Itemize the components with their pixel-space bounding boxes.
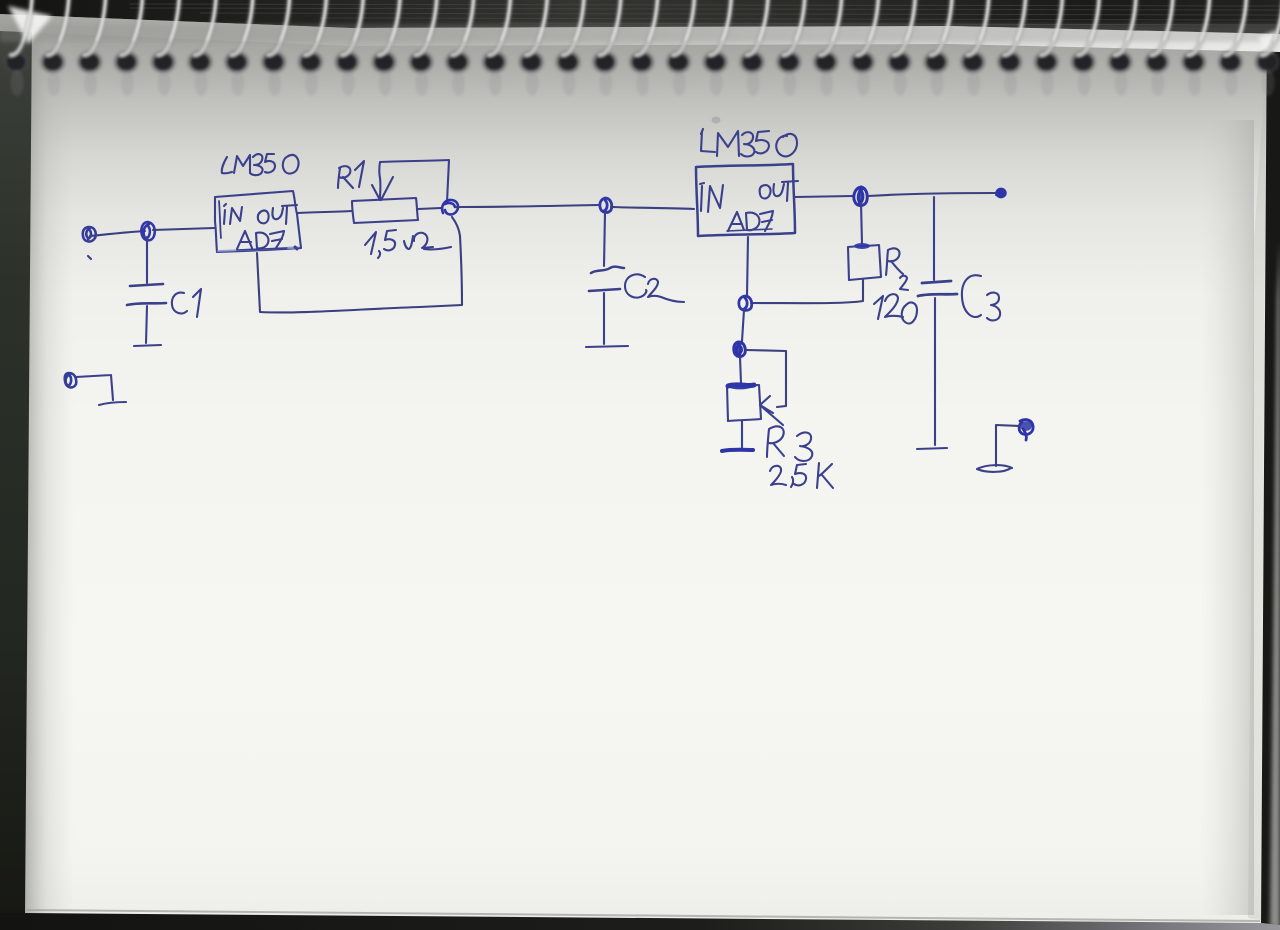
wire node J1 to U1 IN: [153, 228, 214, 230]
regulator U1 box: [215, 191, 301, 252]
label R2: [886, 248, 903, 275]
node J2 (output of R1): [442, 200, 458, 215]
wire node J3 to U2 IN: [611, 207, 694, 209]
regulator U1 pin label OUT: [258, 211, 269, 224]
potentiometer R3 wiper arrow: [760, 396, 783, 425]
node J1 (input junction): [141, 222, 154, 240]
regulator U2 box: [696, 164, 795, 236]
capacitor C3 lead bottom: [934, 298, 936, 445]
capacitor C2 lead bottom: [603, 293, 605, 344]
R3 foot: [722, 450, 753, 451]
label C3: [962, 275, 981, 317]
capacitor C1 bottom plate: [127, 303, 166, 305]
potentiometer R1 wiper wire loop: [379, 160, 449, 202]
wire output terminal L-shape: [996, 425, 1020, 466]
wire U2 OUT to node J4: [795, 196, 853, 197]
wire R3 to foot: [741, 421, 743, 448]
capacitor C2 foot: [586, 346, 628, 347]
potentiometer R3 body: [727, 385, 761, 421]
wire node J6 to R3: [740, 357, 741, 383]
stray ink dot: [88, 256, 91, 259]
output terminal foot: [977, 465, 1012, 472]
regulator U2 pin label ADJ: [728, 212, 744, 231]
regulator U2 pin label OUT: [760, 185, 771, 198]
wire U2 ADJ to node J5: [747, 237, 748, 296]
terminal output (bottom right): [1019, 420, 1033, 440]
capacitor C2 lead top: [604, 212, 605, 266]
regulator U2 pin label IN: [700, 183, 704, 211]
potentiometer R3 wiper loop: [746, 350, 786, 407]
label 2,5K: [770, 466, 786, 485]
capacitor C1 lead top: [146, 237, 148, 283]
output terminal dot: [996, 188, 1006, 197]
wire U1 OUT to R1: [298, 211, 352, 213]
wire node J2 to node J3: [456, 205, 598, 207]
node J4 (output junction): [854, 187, 867, 206]
label C1: [172, 289, 201, 317]
stray pencil smudge: [712, 117, 721, 124]
capacitor C1 lead bottom: [146, 306, 147, 343]
label 1,5 ohm: [365, 232, 376, 254]
node J5 (ADJ junction upper): [739, 296, 752, 310]
capacitor C3 top plate: [922, 281, 951, 283]
label R1: [338, 166, 353, 188]
capacitor C1 top plate: [130, 284, 163, 286]
wire U1 ADJ loop (down, right, up to J2): [257, 217, 462, 312]
wire input terminal to node J1: [90, 231, 145, 236]
regulator U1 label LM350: [222, 157, 232, 173]
wire R2 to node J5: [751, 280, 863, 303]
node J6 (ADJ junction lower): [734, 342, 745, 357]
wire node J4 to R2: [861, 203, 862, 244]
wire R1 to node J2: [418, 208, 441, 209]
label R3: [767, 426, 784, 457]
capacitor C2 top plate: [591, 267, 624, 273]
capacitor C1 foot: [134, 345, 161, 346]
wire node J5 to node J6: [742, 310, 744, 341]
capacitor C3 bottom plate: [918, 294, 957, 296]
capacitor C2 bottom plate: [589, 289, 620, 291]
label 120: [874, 296, 883, 319]
potentiometer R1 wiper arrow: [372, 177, 393, 200]
resistor R2 body: [848, 245, 881, 280]
terminal input (left): [83, 227, 96, 242]
node J3 (C2 junction): [600, 198, 612, 212]
regulator U1 pin label IN: [224, 204, 226, 224]
regulator U1 pin label ADJ: [237, 231, 252, 249]
capacitor C3 foot: [917, 448, 947, 449]
terminal aux (bottom left): [65, 373, 77, 387]
label C2: [625, 274, 646, 297]
potentiometer R1 body: [352, 198, 418, 223]
wire C3 tap from output wire: [933, 197, 935, 280]
regulator U2 label LM350: [701, 129, 715, 152]
wire node J4 to output dot: [868, 193, 995, 196]
wire terminal aux L-shape: [76, 375, 126, 405]
